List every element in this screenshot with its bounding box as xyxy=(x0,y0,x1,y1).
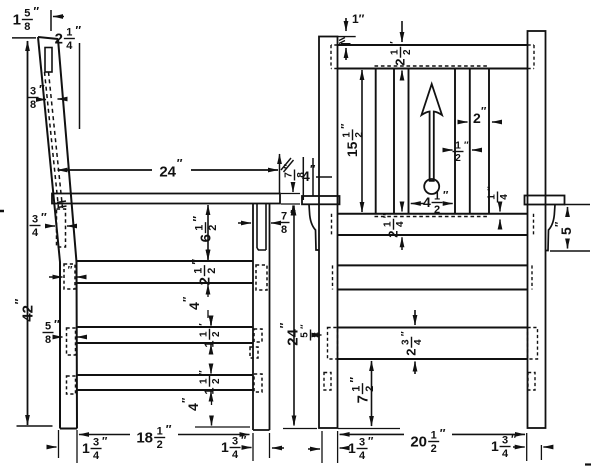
dim 42in label xyxy=(12,298,36,321)
dim 15-1/2 slat height xyxy=(340,70,366,212)
svg-text:1: 1 xyxy=(383,221,394,227)
side view: rear post xyxy=(38,37,77,429)
svg-text:3: 3 xyxy=(232,436,238,448)
svg-text:″: ″ xyxy=(277,322,291,328)
svg-text:″: ″ xyxy=(198,370,209,375)
svg-text:4: 4 xyxy=(93,450,100,462)
dim 2-1/4 extension line right xyxy=(79,43,81,129)
svg-text:8: 8 xyxy=(45,334,51,346)
svg-text:″: ″ xyxy=(389,41,400,46)
svg-text:″: ″ xyxy=(241,435,247,447)
svg-text:2: 2 xyxy=(434,204,440,216)
svg-text:3: 3 xyxy=(502,435,508,447)
dim 4in arm xyxy=(302,157,332,200)
svg-text:2: 2 xyxy=(386,231,401,238)
svg-text:4: 4 xyxy=(423,194,431,210)
svg-text:2: 2 xyxy=(393,59,408,66)
svg-text:2: 2 xyxy=(431,443,437,455)
svg-text:2: 2 xyxy=(207,225,219,231)
svg-text:4: 4 xyxy=(395,221,406,227)
svg-text:1: 1 xyxy=(194,225,206,231)
svg-text:1: 1 xyxy=(390,49,401,55)
svg-text:″: ″ xyxy=(54,317,60,331)
dim 1-3/4 right leg xyxy=(221,435,284,462)
svg-text:″: ″ xyxy=(347,377,361,383)
svg-text:1: 1 xyxy=(199,378,210,384)
svg-text:2: 2 xyxy=(473,110,481,126)
dim 1in post top xyxy=(338,12,365,60)
svg-text:5: 5 xyxy=(24,8,30,20)
side view: seat rail xyxy=(77,261,253,283)
svg-text:1: 1 xyxy=(342,132,353,138)
svg-text:4: 4 xyxy=(185,403,201,411)
svg-text:″: ″ xyxy=(486,186,497,191)
svg-text:″: ″ xyxy=(511,434,517,446)
svg-text:1: 1 xyxy=(487,194,498,200)
svg-text:″: ″ xyxy=(481,106,487,118)
dim 3/8 slat thickness xyxy=(28,82,67,111)
svg-text:1: 1 xyxy=(66,27,72,39)
dim 1-1/2 upper stretcher xyxy=(198,318,222,352)
dim 4in gap xyxy=(182,291,212,326)
front view: top rail tenons (dashed) xyxy=(331,45,534,69)
side view: top rail section box xyxy=(45,48,52,73)
svg-text:″: ″ xyxy=(368,436,374,448)
svg-text:2: 2 xyxy=(364,386,376,392)
dim 1-3/4 front left leg xyxy=(308,436,374,463)
front view: right post xyxy=(528,31,546,428)
front view: arrow cutout in center slat xyxy=(422,84,443,194)
svg-text:4: 4 xyxy=(66,40,73,52)
svg-text:1: 1 xyxy=(202,341,217,348)
dim 24in height xyxy=(277,206,301,426)
svg-text:1: 1 xyxy=(193,268,205,274)
svg-text:″: ″ xyxy=(181,397,193,403)
front view: hidden side stretcher tenons (dashed) xyxy=(324,373,535,391)
svg-text:″: ″ xyxy=(39,82,45,96)
side view: corbel under arm (edge view) xyxy=(257,204,266,250)
svg-text:5: 5 xyxy=(300,332,311,338)
svg-text:24: 24 xyxy=(159,163,176,180)
dim 1-3/4 front right leg xyxy=(491,434,553,461)
dim 2-1/2 top rail xyxy=(389,21,413,80)
side view: seat rail tenons (dashed) xyxy=(64,264,267,290)
svg-text:″: ″ xyxy=(75,23,81,37)
dim 2-3/4 front stretcher xyxy=(400,310,424,374)
side view: hatch marks at arm junction xyxy=(57,201,67,208)
svg-text:2: 2 xyxy=(402,49,413,55)
svg-text:4: 4 xyxy=(499,194,510,200)
front view: right corbel xyxy=(546,205,556,251)
svg-text:3: 3 xyxy=(359,437,365,449)
front view: front stretcher tenons (dashed) xyxy=(328,328,538,360)
side view: front leg xyxy=(253,204,270,431)
svg-text:3: 3 xyxy=(401,339,412,345)
dim corbel arrows xyxy=(238,222,281,224)
front view: lower back rail tenons (dashed) xyxy=(332,214,534,235)
svg-text:″: ″ xyxy=(443,190,449,202)
dim 7-1/2 xyxy=(347,361,376,426)
dim 20-1/2 bottom xyxy=(340,426,525,455)
side view: upper side stretcher xyxy=(77,327,253,343)
front view: top rail xyxy=(338,45,528,69)
svg-text:42: 42 xyxy=(19,305,36,322)
svg-text:7: 7 xyxy=(354,395,371,403)
svg-text:3: 3 xyxy=(32,214,38,226)
svg-text:2: 2 xyxy=(206,268,218,274)
dim 24in right extension + hatch xyxy=(280,154,294,194)
dim 5in corbel xyxy=(550,205,590,252)
svg-text:″: ″ xyxy=(102,436,108,448)
svg-text:1: 1 xyxy=(221,439,229,455)
svg-text:″: ″ xyxy=(177,156,183,170)
front view: lower back rail xyxy=(338,214,528,235)
svg-text:″: ″ xyxy=(68,265,73,276)
svg-text:″: ″ xyxy=(290,207,296,221)
front view: front stretcher xyxy=(338,328,528,360)
front view: back slat 1 xyxy=(376,69,394,214)
dim 1/2 slat gap xyxy=(443,140,479,164)
svg-text:6: 6 xyxy=(197,234,214,242)
dim 2-1/4 label xyxy=(55,23,82,52)
side view: lower stretcher tenons (dashed) xyxy=(67,374,263,394)
front view: left post xyxy=(319,37,338,429)
svg-text:1: 1 xyxy=(13,11,21,28)
svg-text:4: 4 xyxy=(232,449,239,461)
dim 1-5/8 label xyxy=(13,4,40,33)
dim 4-1/2 center slat xyxy=(411,190,453,217)
dim 2-1/4 back rail xyxy=(382,204,406,250)
front view: left corbel xyxy=(309,205,319,251)
svg-text:″: ″ xyxy=(440,426,446,440)
svg-text:2: 2 xyxy=(196,277,213,285)
dim 6-1/2 xyxy=(190,205,219,260)
svg-text:8: 8 xyxy=(312,332,323,338)
svg-text:4: 4 xyxy=(359,450,366,462)
front view: right arm xyxy=(525,196,565,205)
svg-text:1: 1 xyxy=(431,430,437,442)
svg-text:20: 20 xyxy=(410,433,427,450)
dim 5/8 stretcher tenon xyxy=(299,324,323,341)
svg-text:4: 4 xyxy=(186,302,202,310)
svg-text:1: 1 xyxy=(491,438,499,454)
svg-text:2: 2 xyxy=(404,349,419,356)
svg-text:″: ″ xyxy=(382,213,393,218)
dim 7/8 arm thickness xyxy=(281,164,307,215)
side view: arm board xyxy=(52,194,280,204)
dim 7/8 label upright xyxy=(279,207,297,236)
front view: back slat 3 xyxy=(470,69,489,214)
svg-text:1: 1 xyxy=(434,191,440,203)
dim 2-1/2 rail xyxy=(189,254,218,290)
svg-text:4: 4 xyxy=(32,227,39,239)
scan artifact left edge xyxy=(0,210,4,213)
svg-text:2: 2 xyxy=(157,439,163,451)
svg-text:7: 7 xyxy=(281,211,287,223)
svg-text:4: 4 xyxy=(502,448,509,460)
dim 1-3/4 left leg xyxy=(48,436,108,463)
svg-text:″: ″ xyxy=(198,323,209,328)
svg-text:2: 2 xyxy=(55,30,63,47)
dim 2in slat xyxy=(459,106,498,127)
svg-text:″: ″ xyxy=(464,140,469,151)
svg-text:″: ″ xyxy=(299,324,310,329)
dim 4in bottom xyxy=(181,397,212,426)
svg-text:1″: 1″ xyxy=(352,12,365,26)
svg-text:15: 15 xyxy=(344,141,360,157)
dim 5/8 tenon length xyxy=(43,317,84,346)
front view: arm dim extension line xyxy=(312,158,314,196)
dim 42in vertical line xyxy=(12,38,53,426)
svg-text:1: 1 xyxy=(351,386,363,392)
svg-text:8: 8 xyxy=(30,99,36,111)
svg-text:5: 5 xyxy=(45,321,51,333)
svg-text:2: 2 xyxy=(211,331,222,337)
front view: rear seat rail xyxy=(338,265,528,289)
front view: left arm xyxy=(302,196,340,204)
side view: hidden back-slat lines (dashed) xyxy=(45,72,63,208)
svg-text:″: ″ xyxy=(283,164,294,169)
svg-text:8: 8 xyxy=(24,21,30,33)
svg-text:″: ″ xyxy=(554,221,566,227)
svg-text:1: 1 xyxy=(82,440,90,456)
scan artifact bottom right xyxy=(585,463,591,465)
svg-text:7: 7 xyxy=(284,172,295,178)
front view: center slat xyxy=(409,69,456,214)
dim 2-1/4 extension xyxy=(51,10,64,31)
side view: upper stretcher tenons (dashed) xyxy=(67,328,263,358)
svg-text:″: ″ xyxy=(41,210,47,224)
svg-text:″: ″ xyxy=(12,298,26,304)
svg-text:5: 5 xyxy=(558,227,574,235)
front view: bottom extension ticks xyxy=(322,429,541,464)
svg-text:″: ″ xyxy=(190,216,204,222)
dim 18-1/2 bottom xyxy=(79,422,250,451)
svg-text:″: ″ xyxy=(189,259,203,265)
dim 3/4 rail tenon xyxy=(30,210,74,239)
svg-text:2: 2 xyxy=(211,378,222,384)
svg-text:1: 1 xyxy=(202,388,217,395)
svg-text:1: 1 xyxy=(157,426,163,438)
side view: lower back rail tenon (dashed) xyxy=(57,209,66,247)
front view: seat rail tenons (dashed) xyxy=(333,265,533,289)
svg-text:″: ″ xyxy=(400,331,411,336)
svg-text:1: 1 xyxy=(348,440,356,456)
svg-text:3: 3 xyxy=(93,437,99,449)
svg-text:4: 4 xyxy=(302,168,310,184)
front view: slat panel dashed top/bottom xyxy=(375,66,490,217)
dim seat-rail tenon arrows xyxy=(49,265,85,277)
svg-text:4: 4 xyxy=(413,339,424,345)
svg-text:″: ″ xyxy=(166,422,172,436)
svg-text:″: ″ xyxy=(182,296,194,302)
side view: lower side stretcher xyxy=(77,375,253,390)
svg-text:3: 3 xyxy=(30,86,36,98)
svg-text:18: 18 xyxy=(136,429,153,446)
svg-text:1: 1 xyxy=(199,331,210,337)
dim 24in horizontal xyxy=(58,156,279,180)
dim 1/4 right gap xyxy=(486,186,510,227)
svg-text:2: 2 xyxy=(455,153,461,164)
svg-text:″: ″ xyxy=(33,4,39,18)
svg-text:2: 2 xyxy=(354,132,365,138)
svg-text:″: ″ xyxy=(340,123,352,129)
dim 1-1/2 lower stretcher xyxy=(198,366,222,399)
svg-text:1: 1 xyxy=(455,141,461,152)
svg-text:8: 8 xyxy=(281,224,287,236)
side view: leg bottom extension ticks xyxy=(59,427,318,463)
